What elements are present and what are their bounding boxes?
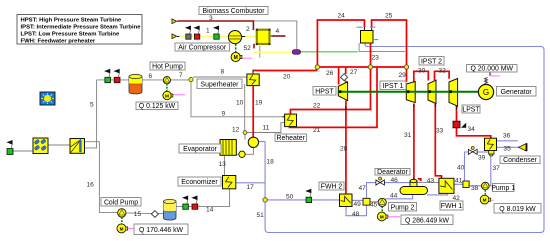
svg-text:Q 170.446 kW: Q 170.446 kW (139, 227, 184, 234)
svg-text:35: 35 (504, 146, 512, 153)
svg-text:Generator: Generator (501, 89, 533, 96)
svg-text:FWH 1: FWH 1 (441, 203, 463, 210)
svg-text:43: 43 (427, 178, 435, 185)
svg-text:G: G (483, 88, 489, 97)
svg-text:FWH: Feedwater preheater: FWH: Feedwater preheater (21, 39, 96, 45)
svg-text:Cold Pump: Cold Pump (104, 199, 138, 206)
svg-text:13: 13 (219, 161, 227, 168)
svg-text:15: 15 (134, 211, 142, 218)
svg-text:46: 46 (391, 177, 399, 184)
svg-text:50: 50 (286, 193, 294, 200)
svg-text:M: M (380, 215, 384, 220)
svg-text:HPST: HPST (315, 88, 334, 95)
svg-text:Pump 2: Pump 2 (391, 204, 415, 211)
svg-text:1: 1 (206, 28, 210, 35)
svg-text:19: 19 (255, 100, 263, 107)
svg-text:31: 31 (404, 132, 412, 139)
svg-text:FWH 2: FWH 2 (321, 184, 343, 191)
svg-text:Q 286.449 kW: Q 286.449 kW (405, 217, 450, 224)
svg-text:14: 14 (206, 206, 214, 213)
svg-text:3: 3 (209, 15, 213, 22)
svg-text:25: 25 (385, 13, 393, 20)
svg-text:11: 11 (263, 125, 270, 132)
svg-text:Pump 1: Pump 1 (491, 185, 515, 192)
svg-text:Superheater: Superheater (201, 81, 240, 88)
svg-text:45: 45 (370, 202, 378, 209)
svg-text:41: 41 (455, 178, 463, 185)
svg-text:30: 30 (418, 68, 426, 75)
svg-text:48: 48 (352, 211, 360, 218)
svg-text:IPST 1: IPST 1 (383, 83, 404, 90)
svg-text:39: 39 (478, 154, 486, 161)
svg-text:33: 33 (436, 127, 444, 134)
svg-text:42: 42 (453, 195, 461, 202)
svg-text:10: 10 (236, 100, 244, 107)
svg-text:16: 16 (87, 182, 95, 189)
svg-text:Evaporator: Evaporator (183, 146, 217, 153)
svg-text:Economizer: Economizer (181, 179, 218, 186)
svg-text:36: 36 (503, 133, 511, 140)
svg-text:34: 34 (468, 126, 476, 133)
svg-text:M: M (483, 198, 487, 203)
svg-text:IPST 2: IPST 2 (421, 58, 442, 65)
svg-text:6: 6 (149, 73, 153, 80)
svg-text:8: 8 (221, 69, 225, 76)
svg-text:HPST: High Pressure Steam Turb: HPST: High Pressure Steam Turbine (21, 17, 122, 23)
svg-text:20: 20 (283, 73, 291, 80)
svg-text:32: 32 (439, 68, 447, 75)
svg-text:Q 8.019 kW: Q 8.019 kW (499, 206, 536, 213)
svg-text:9: 9 (222, 111, 226, 118)
svg-text:21: 21 (313, 127, 321, 134)
svg-text:51: 51 (257, 212, 265, 219)
svg-text:Condenser: Condenser (503, 157, 537, 164)
svg-text:37: 37 (493, 165, 501, 172)
svg-text:7: 7 (179, 72, 183, 79)
svg-text:Q 0.125 kW: Q 0.125 kW (139, 103, 176, 110)
svg-text:22: 22 (313, 103, 321, 110)
svg-text:Reheater: Reheater (277, 135, 306, 142)
svg-text:18: 18 (267, 159, 275, 166)
svg-text:23: 23 (372, 55, 380, 62)
svg-text:IPST: Intermediate Pressure St: IPST: Intermediate Pressure Steam Turbin… (21, 24, 142, 30)
svg-text:40: 40 (457, 165, 465, 172)
svg-text:28: 28 (340, 145, 348, 152)
svg-text:M: M (120, 226, 124, 231)
svg-text:17: 17 (247, 184, 255, 191)
svg-text:26: 26 (326, 70, 334, 77)
svg-text:2: 2 (246, 26, 250, 33)
svg-text:Deaerator: Deaerator (377, 169, 408, 176)
svg-text:52: 52 (244, 45, 252, 52)
svg-text:4: 4 (276, 28, 280, 35)
svg-text:29: 29 (399, 72, 407, 79)
svg-text:12: 12 (232, 127, 240, 134)
svg-text:Q 20.000 MW: Q 20.000 MW (470, 66, 513, 73)
svg-text:44: 44 (390, 193, 398, 200)
svg-text:Biomass Combustor: Biomass Combustor (202, 8, 265, 15)
svg-text:Air Compressor: Air Compressor (178, 45, 227, 52)
svg-text:24: 24 (338, 13, 346, 20)
svg-text:M: M (165, 93, 169, 98)
svg-text:49: 49 (354, 201, 362, 208)
svg-text:LPST: LPST (462, 107, 480, 114)
svg-text:LPST: Low Pressure Steam Turbi: LPST: Low Pressure Steam Turbine (21, 32, 120, 38)
svg-text:38: 38 (471, 185, 479, 192)
svg-text:Hot Pump: Hot Pump (152, 64, 183, 71)
svg-text:47: 47 (359, 185, 367, 192)
svg-text:5: 5 (90, 102, 94, 109)
svg-text:M: M (234, 55, 238, 61)
svg-text:27: 27 (350, 69, 358, 76)
